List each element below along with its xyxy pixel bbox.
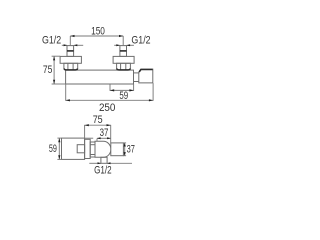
arrow 59 left xyxy=(110,89,114,91)
arrow 59 top xyxy=(58,138,60,142)
arrow 59 bottom xyxy=(58,155,60,159)
svg-text:59: 59 xyxy=(119,90,128,102)
G1/2 right leader lines xyxy=(114,44,120,46)
37 right dim line xyxy=(124,143,126,156)
37 right ticks xyxy=(123,142,126,144)
nut side facet lines xyxy=(90,144,95,146)
svg-text:G1/2: G1/2 xyxy=(42,34,61,46)
arrow 37 right top xyxy=(124,143,126,147)
right inlet hex nut xyxy=(117,63,131,70)
svg-text:37: 37 xyxy=(100,127,109,139)
75 side ext right xyxy=(110,125,112,143)
arrow 75 bottom xyxy=(53,80,55,84)
250 dim line xyxy=(66,99,153,101)
arrow 37 right bottom xyxy=(124,152,126,156)
svg-text:75: 75 xyxy=(93,114,103,126)
dim line 150 xyxy=(70,35,123,37)
dark accents xyxy=(64,51,153,72)
left nut hex facet lines xyxy=(67,63,69,70)
outlet box dark top edge xyxy=(139,70,152,72)
escutcheon side xyxy=(85,139,91,158)
75 dim ext top xyxy=(52,55,61,57)
arrow 150 left xyxy=(70,35,74,37)
mixer body bar xyxy=(66,70,134,84)
59 dim ext right xyxy=(133,84,135,91)
outlet box side xyxy=(111,143,124,156)
svg-text:250: 250 xyxy=(99,102,116,114)
arrow 37 top left xyxy=(97,137,101,139)
inner square xyxy=(77,145,84,153)
75 dim ext bottom xyxy=(52,83,66,85)
arrow 75 side right xyxy=(107,124,111,126)
outlet connector lines xyxy=(134,72,139,74)
arrows side view xyxy=(58,124,126,164)
arrow 250 right xyxy=(149,99,153,101)
G1/2 left leader lines xyxy=(62,44,67,46)
75 dim line xyxy=(53,56,55,84)
svg-text:G1/2: G1/2 xyxy=(94,164,112,176)
left stem joint line xyxy=(67,50,74,52)
svg-text:G1/2: G1/2 xyxy=(131,34,150,46)
arrow 75 top xyxy=(53,56,55,60)
arrows top view xyxy=(53,35,153,102)
left inlet flange xyxy=(60,56,81,63)
svg-text:75: 75 xyxy=(43,64,53,76)
right stem joint line xyxy=(120,50,127,52)
left inlet stem xyxy=(67,46,74,57)
side view parts xyxy=(62,138,111,163)
arrow 59 right xyxy=(129,89,133,91)
right nut dark bottom xyxy=(117,69,130,70)
right inlet stem xyxy=(120,46,127,57)
59 dim line xyxy=(110,89,134,91)
dimension graphics : side view xyxy=(57,125,132,163)
75 side ext left xyxy=(84,125,86,138)
svg-text:150: 150 xyxy=(91,26,105,38)
body box side xyxy=(62,138,85,159)
59 dim ext left xyxy=(109,84,111,91)
right nut hex facet lines xyxy=(120,63,122,70)
59 side dim line xyxy=(58,138,60,159)
37 top ext xyxy=(96,139,98,142)
outlet box xyxy=(139,69,153,83)
cartridge housing xyxy=(95,141,111,157)
250 dim ext left xyxy=(65,84,67,101)
arrow G1/2 R b xyxy=(127,44,131,46)
body box top line extension right xyxy=(85,137,94,139)
arrow G1/2 L b xyxy=(74,44,78,46)
250 dim ext right xyxy=(152,83,154,101)
nut side xyxy=(90,142,95,157)
arrow 150 right xyxy=(119,35,123,37)
37 top dim line xyxy=(97,137,111,139)
arrow G1/2 bottom b xyxy=(107,162,111,164)
dimension graphics : top view xyxy=(52,36,154,101)
arrow G1/2 L a xyxy=(64,44,68,46)
arrow 250 left xyxy=(66,99,70,101)
arrow G1/2 R a xyxy=(116,44,120,46)
G1/2 bottom leader lines xyxy=(89,162,101,164)
75 side dim line xyxy=(85,124,111,126)
arrow 75 side left xyxy=(85,124,89,126)
svg-text:37: 37 xyxy=(127,143,135,155)
left nut dark bottom xyxy=(64,69,77,70)
59 side ticks xyxy=(57,137,61,139)
ext line 150 right xyxy=(122,36,124,45)
arrow G1/2 bottom a xyxy=(98,162,102,164)
svg-text:59: 59 xyxy=(49,143,57,155)
outlet stub down xyxy=(101,157,107,163)
ext line 150 left xyxy=(69,36,71,45)
arrow 37 top right xyxy=(107,137,111,139)
left inlet hex nut xyxy=(64,63,78,70)
right inlet flange xyxy=(113,56,134,63)
